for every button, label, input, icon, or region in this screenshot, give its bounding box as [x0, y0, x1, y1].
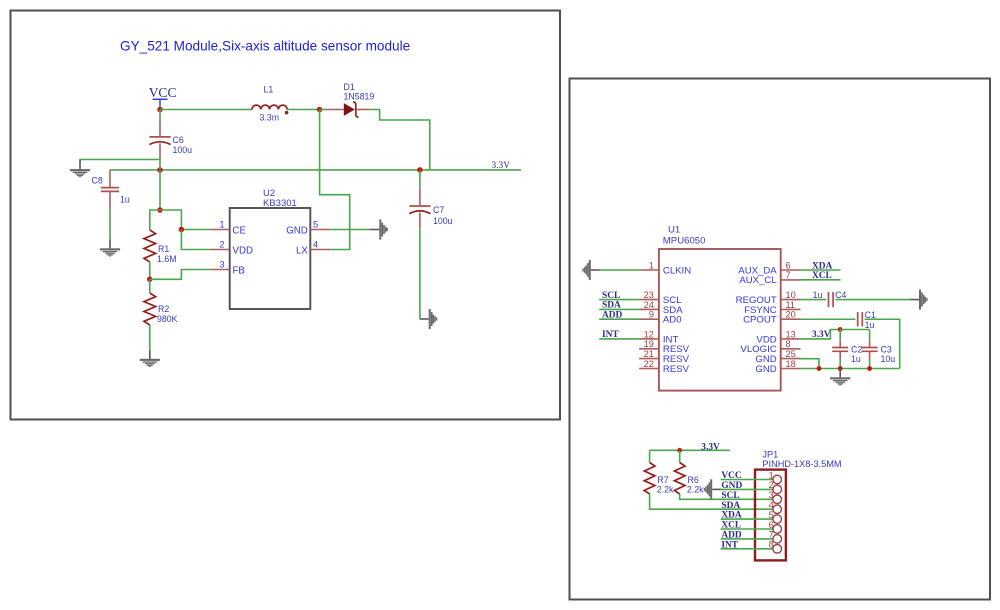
svg-text:R1: R1	[158, 244, 169, 254]
capacitor C6 100u	[159, 110, 161, 160]
svg-text:SCL: SCL	[602, 291, 620, 301]
svg-text:CLKIN: CLKIN	[663, 265, 691, 276]
svg-text:LX: LX	[296, 245, 308, 256]
svg-text:1u: 1u	[813, 290, 823, 300]
JP1 pin 4 pad	[773, 505, 782, 514]
U2 pin 4 LX	[310, 249, 330, 251]
svg-text:SCL: SCL	[721, 491, 739, 501]
svg-text:PINHD-1X8-3.5MM: PINHD-1X8-3.5MM	[762, 459, 841, 469]
wire net ADD	[599, 318, 639, 320]
junction 3.3V node	[838, 327, 843, 332]
junction R1 node	[157, 207, 163, 213]
U1 pin 25 GND	[781, 358, 801, 360]
resistor R7 2.2k	[649, 450, 651, 462]
svg-text:RESV: RESV	[663, 364, 690, 375]
svg-text:1N5819: 1N5819	[344, 92, 375, 102]
wire R7 to SDA row	[650, 494, 774, 509]
U1 pin 11 FSYNC	[781, 308, 801, 310]
supply VCC	[149, 85, 177, 110]
svg-text:3.3m: 3.3m	[260, 113, 280, 123]
JP1 pin 3 pad	[773, 495, 782, 504]
wire CPOUT to C1	[801, 318, 856, 320]
wire REGOUT to C4	[801, 299, 827, 301]
svg-text:FB: FB	[233, 265, 245, 276]
wire FB branch	[150, 270, 210, 280]
wire VDD branch	[181, 230, 209, 250]
JP1 pin 6 pad	[773, 525, 782, 534]
ground arrow at CLKIN	[582, 260, 599, 280]
resistor R2 980K	[149, 279, 151, 293]
junction R6 top	[677, 448, 682, 453]
U1 pin 20 CPOUT	[781, 318, 801, 320]
op IC U2 KB3301 body	[230, 208, 311, 309]
capacitor C7 100u	[419, 170, 421, 229]
wire C4 to ground	[835, 299, 910, 301]
svg-text:GND: GND	[755, 364, 776, 375]
U1 pin 19 RESV	[639, 348, 659, 350]
svg-text:AUX_CL: AUX_CL	[739, 275, 777, 286]
wire JP1 row ADD	[721, 538, 774, 540]
svg-text:CE: CE	[233, 225, 247, 236]
wire C1 to GND rail	[865, 319, 900, 368]
svg-text:9: 9	[649, 310, 654, 320]
U1 pin 7 AUX_CL	[781, 279, 801, 281]
svg-text:2.2k: 2.2k	[657, 485, 674, 495]
svg-text:KB3301: KB3301	[263, 198, 297, 209]
svg-text:XDA: XDA	[721, 511, 742, 521]
wire node to R1	[150, 210, 160, 230]
svg-text:C4: C4	[835, 290, 846, 300]
svg-text:GND: GND	[721, 481, 742, 491]
wire GND pin25 branch	[801, 359, 820, 369]
U1 pin 8 VLOGIC	[781, 348, 801, 350]
wire CE branch	[160, 210, 210, 230]
svg-text:100u: 100u	[173, 145, 193, 155]
svg-text:1u: 1u	[865, 320, 875, 330]
svg-text:8: 8	[786, 339, 791, 349]
wire rail down to R1 node	[159, 170, 161, 210]
wire L1 to node	[287, 109, 319, 111]
U1 pin 10 REGOUT	[781, 299, 801, 301]
JP1 pin 8 pad	[773, 545, 782, 554]
wire GND rail pin18	[801, 368, 900, 370]
svg-text:1u: 1u	[851, 354, 861, 364]
svg-text:C6: C6	[173, 135, 184, 145]
U2 pin 5 GND	[310, 229, 330, 231]
wire node to LX pin4 branch	[320, 110, 350, 250]
frame sheet1	[11, 11, 561, 420]
svg-text:1.6M: 1.6M	[157, 254, 177, 264]
wire net XDA	[801, 269, 841, 271]
svg-text:100u: 100u	[433, 216, 453, 226]
junction R2 node	[147, 277, 153, 283]
svg-text:24: 24	[644, 300, 654, 310]
svg-text:VCC: VCC	[149, 85, 177, 100]
wire JP1 row XDA	[721, 518, 774, 520]
U2 pin 3 FB	[210, 269, 230, 271]
JP1 pin 7 pad	[773, 535, 782, 544]
svg-text:6: 6	[786, 260, 791, 270]
capacitor C2 1u	[839, 330, 841, 369]
IC U1 MPU6050 body	[659, 249, 781, 391]
U1 pin 24 SDA	[639, 308, 659, 310]
JP1 pin 1 pad	[773, 475, 782, 484]
svg-text:2.2k: 2.2k	[687, 485, 704, 495]
svg-text:AD0: AD0	[663, 315, 682, 326]
junction VCC node	[157, 107, 163, 113]
U1 pin 12 INT	[639, 338, 659, 340]
wire C8 to ground	[109, 209, 111, 240]
ground at C8	[100, 240, 120, 257]
wire C6 bottom to ground	[80, 160, 160, 163]
wire C7 to ground	[419, 229, 421, 319]
junction node L1-D1	[317, 107, 323, 113]
svg-text:ADD: ADD	[602, 311, 623, 321]
wire VCC to L1	[160, 109, 252, 111]
diode D1 cathode lead	[356, 109, 370, 111]
ground arrow at JP1 GND	[704, 479, 721, 499]
capacitor C3 10u	[869, 330, 871, 369]
wire GND pin5 to ground	[330, 229, 370, 231]
svg-text:3.3V: 3.3V	[701, 442, 720, 452]
wire 3.3V node to C3	[840, 329, 869, 331]
svg-text:4: 4	[313, 240, 318, 250]
svg-text:7: 7	[786, 270, 791, 280]
ground at GND rail	[830, 369, 850, 386]
ground at U2 pin5	[371, 219, 388, 239]
svg-text:SDA: SDA	[721, 501, 740, 511]
svg-text:MPU6050: MPU6050	[663, 236, 706, 247]
svg-text:980K: 980K	[157, 314, 178, 324]
svg-text:CPOUT: CPOUT	[743, 315, 777, 326]
svg-text:10u: 10u	[881, 354, 896, 364]
svg-text:JP1: JP1	[762, 449, 778, 459]
wire C6 bottom to rail	[159, 160, 161, 170]
U2 pin 2 VDD	[210, 249, 230, 251]
ground at R2	[140, 350, 160, 367]
U1 pin 13 VDD	[781, 338, 801, 340]
svg-text:1: 1	[219, 220, 224, 230]
svg-text:19: 19	[644, 339, 654, 349]
svg-text:25: 25	[786, 349, 796, 359]
svg-text:22: 22	[644, 359, 654, 369]
wire net SDA	[599, 308, 639, 310]
svg-text:3.3V: 3.3V	[492, 161, 511, 171]
svg-text:SDA: SDA	[602, 301, 621, 311]
U1 pin 18 GND	[781, 368, 801, 370]
U1 pin 6 AUX_DA	[781, 269, 801, 271]
junction CE branch	[179, 227, 185, 233]
wire JP1 row GND	[721, 488, 774, 490]
svg-text:R7: R7	[657, 475, 668, 485]
JP1 pin 5 pad	[773, 515, 782, 524]
svg-text:11: 11	[786, 300, 796, 310]
U1 pin 9 AD0	[639, 318, 659, 320]
U1 pin 23 SCL	[639, 299, 659, 301]
svg-text:D1: D1	[344, 82, 355, 92]
frame sheet2	[570, 79, 991, 600]
capacitor C8 1u	[109, 170, 111, 209]
svg-text:21: 21	[644, 349, 654, 359]
wire JP1 row XCL	[721, 528, 774, 530]
wire net XCL	[801, 279, 841, 281]
svg-text:3: 3	[219, 260, 224, 270]
svg-text:23: 23	[644, 290, 654, 300]
svg-text:10: 10	[786, 290, 796, 300]
wire JP1 row INT	[721, 548, 774, 550]
svg-text:XCL: XCL	[812, 271, 832, 281]
resistor R1 1.6M	[144, 230, 156, 262]
junction rail at C7	[417, 167, 423, 173]
ground at C7	[420, 309, 437, 329]
wire 3.3V rail net	[110, 169, 521, 171]
wire R2 to ground	[149, 325, 151, 350]
ground at C4	[910, 289, 927, 309]
wire node to D1	[320, 109, 327, 111]
svg-text:XCL: XCL	[721, 521, 741, 531]
svg-text:2: 2	[219, 240, 224, 250]
ground at C6	[70, 160, 90, 177]
svg-text:VCC: VCC	[721, 471, 742, 481]
wire R6 to SCL row	[680, 494, 774, 499]
capacitor C4 1u	[828, 292, 830, 307]
wire D1 to 3.3V rail	[370, 110, 430, 170]
svg-text:VDD: VDD	[233, 245, 253, 256]
svg-text:XDA: XDA	[812, 261, 833, 271]
svg-text:R6: R6	[688, 475, 699, 485]
JP1 pin 2 pad	[773, 485, 782, 494]
svg-text:20: 20	[786, 310, 796, 320]
inductor L1	[252, 105, 288, 114]
svg-text:INT: INT	[602, 330, 619, 340]
capacitor C1 1u	[857, 312, 859, 326]
svg-text:ADD: ADD	[721, 531, 742, 541]
svg-text:C8: C8	[92, 176, 103, 186]
wire CLKIN net	[600, 269, 640, 271]
junction rail at C6	[157, 167, 163, 173]
svg-text:5: 5	[313, 220, 318, 230]
diode D1 anode lead	[327, 109, 344, 111]
wire 3.3V to resistors	[650, 449, 730, 451]
svg-text:13: 13	[786, 329, 796, 339]
svg-text:12: 12	[644, 329, 654, 339]
svg-text:GY_521 Module,Six-axis altitud: GY_521 Module,Six-axis altitude sensor m…	[120, 39, 410, 54]
U1 pin 1 CLKIN	[639, 269, 659, 271]
svg-text:3.3V: 3.3V	[812, 330, 831, 340]
svg-text:R2: R2	[158, 304, 169, 314]
wire JP1 row VCC	[721, 479, 774, 481]
junction GND rail at C3	[867, 366, 872, 371]
svg-text:1u: 1u	[120, 195, 130, 205]
wire VDD to 3.3V node	[801, 330, 841, 339]
svg-text:18: 18	[786, 359, 796, 369]
U2 pin 1 CE	[210, 229, 230, 231]
U1 pin 22 RESV	[639, 368, 659, 370]
diode D1 1N5819	[344, 102, 359, 117]
svg-text:GND: GND	[286, 225, 308, 236]
wire R1 to R2 node	[149, 262, 151, 279]
svg-text:C7: C7	[433, 205, 444, 215]
svg-text:U1: U1	[668, 224, 680, 235]
junction GND rail at pin25	[817, 366, 822, 371]
resistor R6 2.2k	[679, 450, 681, 462]
svg-text:1: 1	[649, 260, 654, 270]
wire net INT	[599, 338, 639, 340]
U1 pin 21 RESV	[639, 358, 659, 360]
svg-text:INT: INT	[721, 540, 738, 550]
connector JP1 body	[755, 470, 786, 561]
junction GND rail at C2	[838, 366, 843, 371]
svg-text:L1: L1	[264, 85, 274, 95]
wire net SCL	[599, 299, 639, 301]
